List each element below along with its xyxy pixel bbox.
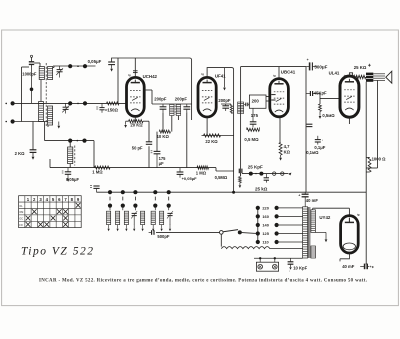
lamp leads [259, 257, 276, 262]
coil IF1 secondary [176, 105, 180, 116]
svg-text:125: 125 [262, 231, 269, 236]
pot link mark [255, 173, 256, 174]
label 4.7 KOhm [284, 144, 291, 154]
wire 22K line [202, 135, 234, 137]
coil IF1 primary [170, 105, 174, 116]
wire x50 stub [49, 159, 51, 168]
capacitor 0.1 series [306, 124, 312, 126]
svg-text:10 KΩ: 10 KΩ [157, 134, 170, 139]
gang section dot 2a [68, 101, 72, 105]
label 200pF b [175, 97, 188, 102]
output transformer T2 [366, 73, 373, 82]
label 1 MOhm b [196, 171, 207, 176]
capacitor IF1 C2 [183, 104, 190, 112]
capacitor 200pF c [221, 104, 231, 111]
wire UY42 cathode out [340, 253, 349, 261]
label 10 KpF [289, 266, 308, 273]
label 10 KOhm [157, 134, 170, 139]
pot dot b [259, 172, 263, 176]
svg-text:9: 9 [77, 197, 80, 202]
trimmer C t1 [56, 66, 63, 78]
svg-text:1 MΩ: 1 MΩ [196, 171, 207, 176]
label 0.05uF osc [66, 177, 79, 182]
svg-text:1: 1 [27, 197, 30, 202]
transformer core lines [309, 207, 310, 258]
resistor R 25K fb [354, 75, 366, 78]
wire UCH42 top cap [133, 58, 138, 77]
label 20 KOhm [130, 122, 143, 127]
capacitor 1000pF [29, 62, 34, 67]
coil core dashed x74.5 [74, 146, 76, 166]
antenna terminal A1 [5, 101, 14, 105]
svg-text:tɡ: tɡ [201, 72, 204, 76]
wire x118 bus drop [117, 58, 119, 103]
wire x94 gang to AVC line [93, 141, 95, 168]
resistor R grid 150 [107, 102, 120, 105]
power transformer primary [303, 207, 308, 258]
label 200 box [252, 98, 260, 103]
tube UBC41 guts [274, 81, 284, 112]
wire x377.5 vertical [366, 80, 377, 168]
wire cap to coil [34, 63, 40, 67]
gang link mark 1 [77, 65, 79, 67]
svg-text:10 KpF: 10 KpF [293, 266, 307, 271]
pot contact c1 [273, 172, 276, 175]
capacitor IF2 C [250, 108, 257, 127]
label 22 KOhm [205, 139, 218, 144]
wire IF1 C2 down [186, 112, 188, 167]
svg-text:0,1ᴍΩ: 0,1ᴍΩ [306, 150, 319, 155]
label 2 KOhm [15, 151, 26, 156]
resistor R 10K [159, 130, 170, 133]
svg-text:↓: ↓ [322, 138, 324, 142]
gang section dot 1a [68, 64, 72, 68]
capacitor pot gnd [264, 174, 269, 183]
wire HV sec to UY42 [313, 208, 350, 215]
label 200pF a [154, 97, 167, 102]
speaker voice coil [373, 74, 385, 81]
svg-text:2: 2 [33, 197, 36, 202]
svg-text:3: 3 [39, 197, 42, 202]
switch junction x233 [232, 191, 235, 194]
label 25 KOhm fb [354, 65, 367, 70]
tube UL41 guts [344, 79, 354, 110]
coil L1b osc top [48, 67, 53, 80]
wire osc line y140 [45, 140, 94, 142]
label 25 KOhm pot [255, 187, 268, 192]
pot contact c2 [281, 172, 284, 175]
speaker cone [386, 71, 392, 83]
wire x33 to 2K cap [32, 122, 34, 150]
wire switch drop x221 [220, 234, 222, 246]
label 25 KpF [248, 165, 263, 170]
svg-text:25 KpF: 25 KpF [248, 165, 263, 170]
resistor small x240 [239, 173, 242, 182]
label 200pF c [218, 98, 231, 103]
diode plates UBC41 [271, 95, 275, 100]
wire x149 down [148, 121, 150, 167]
gang section dot 3a [68, 139, 72, 143]
coil L3 oscillator [68, 147, 73, 164]
svg-text:UCH42: UCH42 [143, 74, 158, 79]
svg-text:tɡ: tɡ [357, 212, 360, 216]
capacitor 50pF [146, 142, 152, 145]
wire IF1 C1 down [162, 113, 164, 132]
svg-text:5: 5 [52, 197, 55, 202]
caption [39, 279, 367, 284]
band coils and trimmers [107, 211, 174, 231]
svg-text:tɡ: tɡ [273, 74, 276, 78]
svg-text:22 KΩ: 22 KΩ [205, 139, 218, 144]
capacitor 175pF [151, 151, 161, 168]
wire UF41 top anode [207, 68, 234, 104]
label 1000pF [22, 72, 37, 77]
capacitor 40mF second [365, 261, 375, 269]
label 0.5MOhm c [322, 113, 335, 118]
svg-text:OM: OM [19, 211, 23, 214]
capacitor AVC gnd [90, 186, 100, 193]
wire UCH42 anode out [144, 90, 152, 104]
label 500uF [314, 64, 327, 69]
tube UY42 envelope [341, 216, 359, 253]
label UBC41 [273, 69, 296, 77]
power transformer HV secondary [311, 210, 316, 233]
coil core dashed x46 [45, 63, 47, 127]
svg-text:220: 220 [262, 206, 269, 211]
svg-text:1 MΩ: 1 MΩ [92, 169, 103, 174]
capacitor 0.05uF top [108, 62, 115, 72]
svg-text:tɡ: tɡ [128, 73, 131, 77]
gang section dot 2b [83, 101, 87, 105]
wire pot line [242, 173, 288, 175]
resistor R 1000 Ohm [366, 157, 371, 172]
svg-text:INCAR - Mod. VZ 522. Ricevitor: INCAR - Mod. VZ 522. Ricevitore a tre ga… [39, 279, 367, 284]
wire UCH42 cathode lead [134, 116, 136, 121]
label UL41 [329, 70, 347, 77]
wire speaker top mark [368, 64, 371, 67]
capacitor 0.1uF [315, 136, 324, 145]
wire UF41 cathode [206, 117, 208, 136]
label UF41 [201, 72, 226, 78]
wire earth bus y192.2 [97, 191, 367, 193]
svg-text:+: + [307, 58, 309, 62]
svg-text:+0,05μF: +0,05μF [182, 176, 198, 181]
svg-text:140: 140 [262, 223, 269, 228]
resistor IF2 R loop [247, 127, 260, 131]
label 0.5MOhm a [215, 175, 228, 180]
svg-text:OL: OL [19, 205, 23, 208]
svg-text:200pF: 200pF [175, 97, 188, 102]
wire 1000pF branch [30, 67, 34, 103]
resistor IF2 feed [230, 105, 232, 114]
tube UF41 guts [202, 80, 212, 111]
ground arrow 4.7K [279, 155, 282, 161]
svg-text:50 pF: 50 pF [132, 145, 143, 150]
heater scalloped wire [221, 247, 302, 249]
IF1 core dashes [174, 106, 176, 115]
svg-text:200pF: 200pF [154, 97, 167, 102]
wire UL41 cathode stub [348, 117, 350, 124]
label 0.05uF avc [182, 176, 198, 181]
switch row1 dots [108, 190, 171, 194]
label 175 pF [159, 156, 167, 166]
wire IF2 to UBC41 [266, 97, 270, 102]
dial lamp 2 [273, 264, 278, 269]
svg-text:7: 7 [64, 197, 67, 202]
svg-text:FO: FO [19, 224, 22, 227]
svg-text:175: 175 [251, 113, 259, 118]
svg-text:0,05μF: 0,05μF [66, 177, 79, 182]
gang section dot 1b [83, 64, 87, 68]
wire UBC41 cathode [279, 117, 281, 143]
wire coilA to L2a [40, 80, 42, 102]
wire UF41 screen gnd [223, 68, 226, 91]
svg-text:OC: OC [19, 218, 23, 221]
antenna terminal A2 [5, 119, 14, 123]
svg-text:UL41: UL41 [329, 70, 340, 75]
wire lamp line [254, 257, 303, 259]
wire IF1 sec down [177, 116, 179, 121]
coil L2a antenna main [39, 102, 44, 122]
trimmer C t2 [62, 103, 69, 113]
switch contacts mid [110, 197, 169, 201]
ground arrow x240 [239, 183, 242, 188]
wire x306 long vertical [305, 67, 307, 192]
ground arrow 20K [124, 121, 127, 128]
capacitor 25KpF [239, 169, 242, 174]
label 1000 Ohm [372, 157, 386, 162]
svg-text:6: 6 [58, 197, 61, 202]
wire 500pF line [156, 231, 219, 233]
band table [19, 196, 82, 228]
coil IF2 left [238, 102, 244, 114]
svg-text:0,5ᴍΩ: 0,5ᴍΩ [322, 113, 335, 118]
wire UL41 anode top [349, 73, 353, 77]
capacitor 500uF [306, 58, 317, 70]
wire UBC41 top [241, 67, 306, 79]
svg-text:8: 8 [71, 197, 74, 202]
svg-text:KΩ: KΩ [284, 149, 291, 154]
tube UCH42 guts [130, 80, 140, 111]
svg-text:500pF: 500pF [157, 234, 170, 239]
label 175 b [251, 113, 259, 118]
capacitor 2K bypass [30, 150, 37, 160]
svg-text:Tipo VZ 522: Tipo VZ 522 [21, 246, 93, 258]
svg-text:1000pF: 1000pF [22, 72, 37, 77]
label 0.1MOhm [306, 150, 319, 155]
wire osc coil top lead [69, 141, 71, 147]
wire grid line y103 [13, 102, 127, 104]
svg-text:500μF: 500μF [314, 64, 327, 69]
switch row2 stubs [110, 206, 169, 211]
switch row2 dots [108, 204, 171, 208]
capacitor 0.05uF osc [62, 168, 71, 182]
svg-text:4: 4 [46, 197, 49, 202]
tube UY42 guts [343, 218, 355, 250]
tap column left line [257, 208, 259, 242]
svg-text:UBC41: UBC41 [281, 69, 296, 74]
capacitor IF2 link [244, 103, 249, 107]
svg-text:0,5MΩ: 0,5MΩ [215, 175, 228, 180]
capacitor grid bypass [96, 103, 104, 112]
pot arrow [288, 173, 291, 176]
wire x157 to 175pF [156, 132, 158, 152]
tube UF41 envelope [198, 77, 216, 117]
resistor R 1M first [95, 166, 111, 169]
svg-text:160: 160 [262, 214, 269, 219]
svg-text:≈150Ω: ≈150Ω [105, 108, 119, 113]
svg-text:25 KΩ: 25 KΩ [354, 65, 367, 70]
dial lamp 1 [258, 264, 263, 269]
svg-text:+∗: +∗ [370, 265, 375, 269]
pot dot a [249, 172, 253, 176]
resistor R 1M second [197, 166, 209, 169]
resistor R 0.5M g [319, 104, 322, 111]
wire x240.6 long drop [240, 67, 242, 176]
svg-text:40 mF: 40 mF [306, 198, 319, 203]
svg-text:2 KΩ: 2 KΩ [15, 151, 26, 156]
label 0.5 MOhm b [244, 137, 259, 142]
label UY42 [319, 212, 359, 220]
label 0.1uF [314, 145, 325, 150]
label 40 mF b [342, 264, 355, 269]
wire x233.6 long drop [233, 104, 235, 192]
gang link mark 2 [77, 103, 79, 105]
wire 45K junction [320, 93, 340, 104]
wire osc coil bottom lead [69, 164, 71, 168]
wire 1000pF top lead [22, 55, 33, 67]
svg-text:tɡ: tɡ [344, 73, 347, 77]
capacitor IF1 C1 [160, 104, 167, 113]
wire terminal2 y121 [13, 121, 48, 123]
svg-text:40 mF: 40 mF [342, 264, 355, 269]
wire coil L2b bottom to osc line [45, 122, 48, 141]
capacitor 500pF [149, 230, 154, 235]
tube UL41 envelope [340, 76, 359, 117]
svg-text:+: + [298, 193, 300, 197]
resistor R cathode 20K [126, 120, 149, 123]
gang section dot 3b [82, 139, 86, 143]
power transformer heater winding [311, 246, 316, 258]
wire L1b top to line [53, 66, 54, 68]
label 50 pF [132, 145, 143, 150]
svg-text:0,5 MΩ: 0,5 MΩ [244, 137, 259, 142]
tube UCH42 envelope [127, 77, 145, 116]
label UCH42 [128, 73, 157, 79]
ground arrow 0.5M [319, 111, 322, 118]
wire heater CT arrow [315, 232, 327, 242]
wire gang line y66 [53, 65, 96, 67]
IF2 box [249, 95, 266, 108]
switch S1 contact [220, 231, 224, 235]
resistor R 22K [204, 134, 221, 137]
svg-text:UY42: UY42 [319, 215, 331, 220]
label 150 Ohm [105, 108, 119, 113]
svg-text:20 KΩ: 20 KΩ [130, 122, 143, 127]
label 40 mF a [306, 198, 319, 203]
wire top bus y58 [112, 58, 192, 120]
wire x366 long vertical [365, 82, 367, 264]
voltage taps 220-110 [256, 206, 303, 245]
coil L2b [48, 106, 53, 125]
svg-text:0,05μF: 0,05μF [88, 59, 102, 64]
capacitor 0.05uF avc [177, 168, 184, 178]
wire left loop x21.5 [21, 67, 23, 122]
capacitor 40mF first [298, 192, 308, 207]
wire IF1 top line [152, 103, 192, 105]
svg-text:200pF: 200pF [218, 98, 231, 103]
ground arrow below L2 [57, 122, 60, 129]
capacitor 10KpF [288, 258, 294, 269]
svg-text:25 kΩ: 25 kΩ [255, 187, 268, 192]
resistor R 4.7K [279, 142, 282, 155]
gang link mark 3 [77, 140, 79, 142]
svg-text:200: 200 [252, 98, 260, 103]
wire lever to taps [240, 232, 258, 233]
wire AVC bus y167.6 [50, 168, 234, 171]
wire x366 to cap [360, 264, 369, 266]
svg-text:1000 Ω: 1000 Ω [372, 157, 386, 162]
label Tipo VZ 522 [21, 246, 93, 258]
wire IF1 pri down [171, 116, 173, 132]
label 0.05uF top [88, 59, 102, 64]
dial lamp box [256, 262, 278, 271]
svg-text:110: 110 [262, 240, 268, 245]
switch S1 lever [223, 230, 242, 235]
svg-text:μF: μF [159, 161, 165, 166]
capacitor 45KpF [306, 91, 320, 96]
wire cathode to 40mF [349, 258, 363, 260]
label 500pF [157, 234, 170, 239]
label 45KpF [314, 90, 327, 95]
tube UBC41 envelope [270, 79, 289, 117]
label 1 MOhm a [92, 169, 103, 174]
coil L1a antenna top [39, 67, 44, 80]
